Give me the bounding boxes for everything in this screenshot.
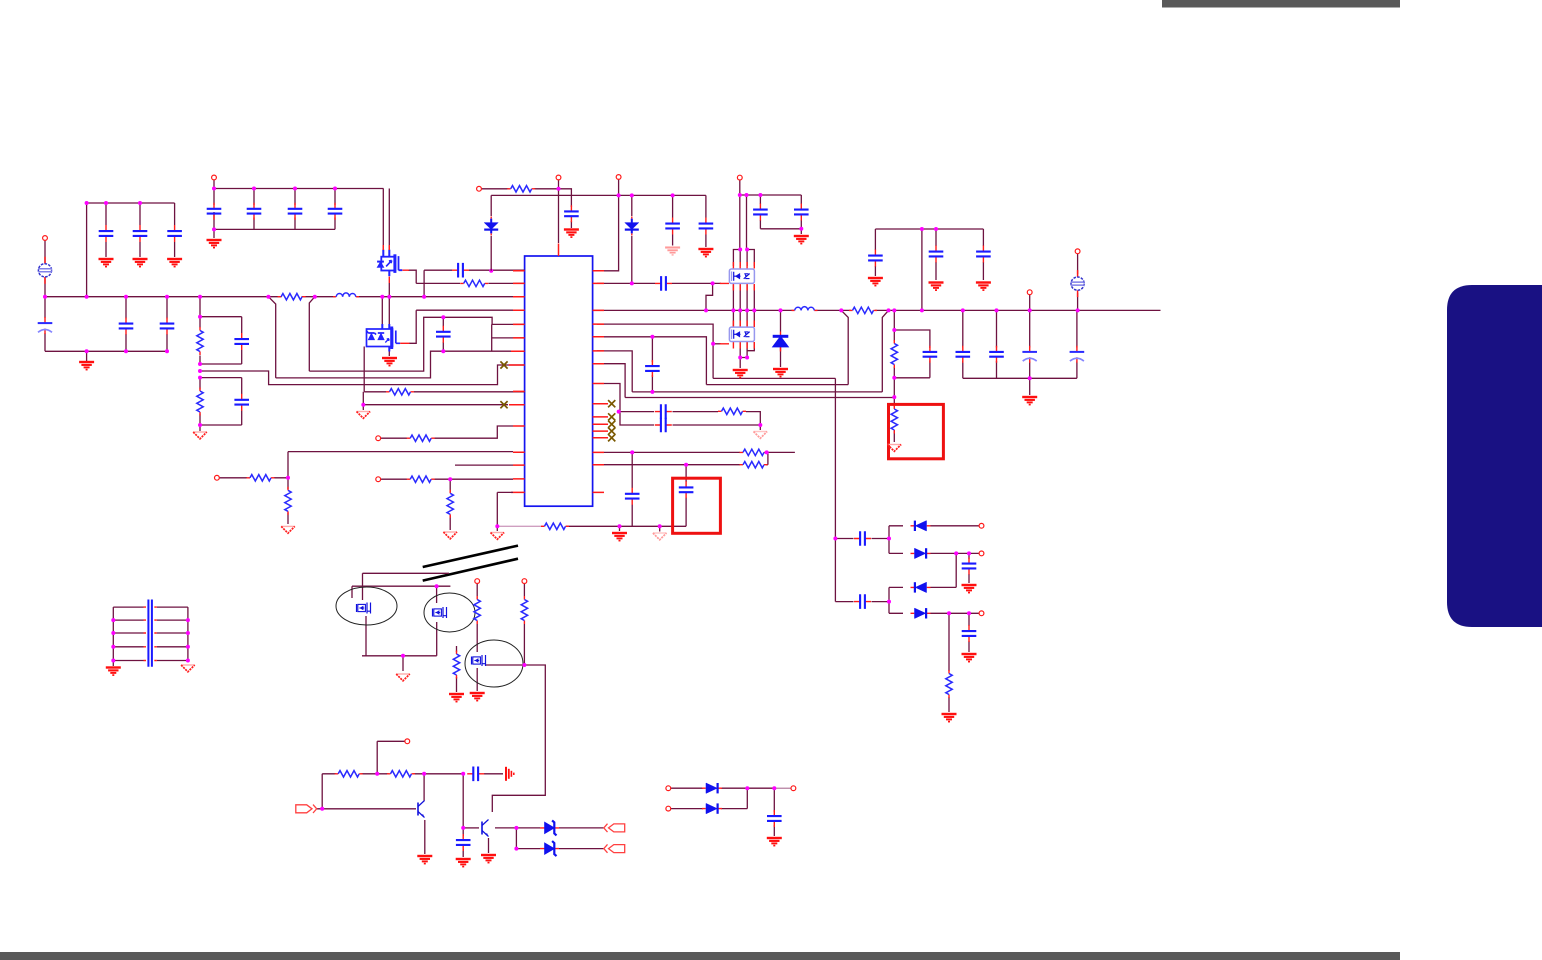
pale wire segment [774,787,791,789]
wire polarized cap C8 leads [44,297,46,352]
wire terminal P2 drop [213,180,215,205]
wire res pair tie [766,452,768,464]
ground [612,533,627,541]
wire flag to bus [44,277,46,297]
capacitor C1 [99,225,114,242]
wire line586 [352,585,450,587]
power flag PF2 [1071,270,1085,297]
wire Q10 emitter [488,838,490,853]
wire row283 resistor link [416,282,524,284]
capacitor C44 [962,558,977,575]
wire E0 drops [352,573,363,600]
polarized capacitor C27 [1070,346,1085,363]
capacitor C41 [767,810,782,827]
diode D6 [702,783,722,793]
ground [929,283,944,291]
wire box2 R2 chain [199,378,201,425]
wire terminal row478 left [219,477,288,479]
wire diode row525 [889,525,979,527]
terminal P7 [1027,290,1032,295]
resistor R22 [335,771,363,777]
terminal P16 [791,786,796,791]
ground [207,240,222,248]
capacitor C4 [207,203,222,220]
wire line to pin row351 [276,351,525,378]
wire Q4 source stub [388,351,390,356]
terminal P20 [979,611,984,616]
top header bar [1162,0,1400,8]
terminal P4 [556,175,561,180]
ground [976,283,991,291]
ground [382,358,397,366]
wire 686 into red box [685,465,687,527]
wire cap C22 chain [935,229,937,280]
wire terminal row188 [482,189,572,207]
ellipse marker E1 [424,593,475,632]
capacitor C31 [655,418,672,433]
terminal P3 [477,186,482,191]
wire R14 chain [287,478,289,524]
node junctions Q area [320,772,518,851]
diode D7 [702,803,722,813]
resistor R6 [891,340,897,368]
wire cap C18 chain [759,195,761,229]
wire Q-top gate jog [408,270,416,283]
ground [396,674,410,681]
wire base Q9 [317,774,416,809]
wire cap C16 chain [672,195,674,245]
wire cap C40 chain [462,828,464,857]
ground [470,693,485,701]
node junctions diode pair [745,786,776,790]
wire row337 left [492,337,525,339]
wire diode rail upper [888,526,890,554]
inductor L1 bus [333,293,359,297]
wire diode row587 [889,553,956,587]
ground [443,532,457,539]
wire row391 resistor link [364,391,524,393]
resistor R7 [891,406,897,434]
resistor R4 [386,389,414,395]
ground [181,665,195,672]
resistor R16 [407,435,435,441]
wire gate jog from bus [706,283,713,310]
IC U1 pin stubs right [593,271,608,493]
wire terminal drop R19 [476,584,478,596]
wire rail VIN top [214,188,384,190]
ground [417,856,432,864]
wire row773 [322,773,463,775]
wire cap C43 link [835,601,889,603]
red pin lead Q2 gate [400,342,409,344]
wire comb link [484,773,503,775]
polarized capacitor C26 [1022,346,1037,363]
ground [962,585,977,593]
wire R24 chain [948,613,950,712]
node junctions bus left [43,187,493,428]
capacitor C18 [753,204,768,221]
terminal P10 [215,475,220,480]
terminal P17 [666,806,671,811]
node junctions lower IC [495,410,768,529]
wire bus riser left [86,203,88,297]
no-connect X [500,361,507,368]
wire box2 bottom [200,424,242,426]
wire row405 [363,404,508,406]
wire cap C21 chain [874,229,876,276]
mosfet Q5 boxed lower [729,327,754,341]
wire gate tie vertical [362,392,364,405]
wire cap C5 leads [253,189,255,230]
wire Q-top gate/drain verticals [382,283,389,325]
wire diode D2 chain [631,195,633,283]
ground [888,445,902,452]
ground [698,249,713,257]
ground [868,278,883,286]
inductor L2 bus [792,307,818,311]
wire bus slant 841 [841,310,848,384]
capacitor C33 [625,488,640,505]
ground [481,855,496,863]
wire row324 continues down [712,344,714,379]
wire cap C17 chain [705,195,707,247]
wire row336 right [597,337,706,385]
node junctions rows [286,476,452,481]
capacitor C29 [923,346,938,363]
wire bank row5 [113,660,188,662]
wire row452 right [604,451,795,453]
wire cap C27 chain [1076,310,1078,378]
wire line573 [363,572,450,574]
wire cap pair loop row411 [620,412,760,425]
capacitor C30 [655,404,672,419]
transistor Q2 mosfet with zeners [367,324,401,352]
wire terminal P5 drop [739,180,741,250]
wire bank row2 [113,619,188,621]
wire cap C23 chain [982,229,984,280]
capacitor C14 row270 [452,263,469,278]
terminal P1 [43,236,48,241]
resistor R20 [521,596,527,624]
wire gnd stub [213,229,215,238]
wire line378 right [713,377,835,379]
wire terminal row270 right [597,180,619,271]
wire E2 gate resistor [456,646,458,692]
wire line397 right [625,397,894,399]
wire schottky D3 leads [780,310,782,367]
terminal P8 [1075,249,1080,254]
wire terminal drop R20 [523,584,525,596]
capacitor C19 [794,204,809,221]
capacitor C10 [160,318,175,335]
wire terminal P1 drop [44,241,46,264]
wire rail 526 [566,525,686,527]
node junctions E area [401,584,526,667]
wire cap C44 chain [968,553,970,583]
wire mos stack upper loop [733,250,754,267]
transistor Q10 npn [482,820,489,837]
ground pale [754,432,768,439]
no-connect X [608,428,615,435]
diode D2 [625,217,639,236]
wire cap-trio rail [87,202,175,204]
wire cap C4 leads [213,212,215,229]
wire E2 source gnd [476,668,478,691]
zener diode D5 [540,841,559,856]
ground [167,259,182,267]
ground [491,533,505,540]
no-connect X [608,413,615,420]
power flag PF1 [38,257,52,284]
resistor R8 [507,186,535,192]
wire 921 to bus [921,229,923,310]
wire Q9 emitter [424,820,426,854]
wire R15 chain [449,479,451,530]
no-connect X pins right [608,400,615,407]
wire E1 gate drop [436,586,438,603]
terminal P5 [737,175,742,180]
ground [357,412,371,419]
transistor Q9 npn [418,801,425,818]
capacitor C43 [854,594,871,609]
wire R6 cap loop [894,330,930,378]
ground [106,668,121,676]
ground [794,236,809,244]
ground [773,369,788,377]
schottky diode D3 [773,332,789,352]
ground [281,526,295,533]
wire cap C19 chain [800,195,802,229]
node junctions center [557,187,1080,399]
wire bank row1 [113,606,188,608]
wire gnd stub [402,656,404,671]
wire bank right rail [187,607,189,660]
wire base Q10 [463,827,479,829]
wire mos2 top leads [733,310,754,327]
capacitor C42 [854,531,871,546]
wire diode D1 chain [490,195,492,270]
wire row452 long [288,452,513,478]
wire rows324-351 tie [491,324,493,351]
wire rail2 bottom [760,229,801,234]
wire gnd stub [86,351,88,361]
wire bank row4 [113,646,188,648]
wire cap C39 link [467,773,469,775]
wire gate2 stub [713,343,721,345]
wire cap C11 leads [241,317,243,364]
capacitor C6 [288,203,303,220]
wire diode row553 [889,552,979,554]
ground [193,432,207,439]
ground [767,838,782,846]
wire cap C42 link [835,538,889,540]
wire bus slant 888 [882,310,888,392]
wire line A step [200,365,525,385]
wire terminal stub 1029 [1029,295,1031,311]
terminal P12 [475,579,480,584]
no-connect X [608,421,615,428]
capacitor C20 [645,360,660,377]
wire box1 bottom [200,363,242,365]
terminal P19 [979,551,984,556]
wire R7 gnd lead [893,431,895,442]
wire terminal row479 [381,478,513,480]
bus crossing slash 2 [423,559,518,581]
ground pale [653,533,667,540]
wire rail229 right [875,228,983,230]
wire cap C13 leads [442,317,444,351]
wire terminal row741 [377,741,405,774]
resistor R5 row283 [460,280,488,286]
resistor R23 [387,771,415,777]
wire Q9 collector [423,774,425,801]
wire cap C9 leads [125,297,127,352]
ground [564,230,579,238]
ground [133,259,148,267]
wire diode row827 [495,827,604,829]
resistor R1 [197,327,203,355]
wire bus slant right [309,297,315,371]
wire cap C41 chain [773,788,775,836]
wire Q4 gate drop [363,347,365,392]
red highlight box 2 [673,478,721,533]
wire line391 right [632,391,882,393]
wire terminal IC top [558,180,560,243]
node junctions diode net [833,537,971,616]
ellipse marker E0 [336,587,397,625]
node junctions bank [111,618,190,662]
wire vertical 746 [746,195,748,250]
resistor R15 [447,490,453,518]
capacitor C17 [699,218,714,235]
terminal P2 [212,175,217,180]
wire cap C3 leads [174,203,176,257]
terminal P9 [376,436,381,441]
wire Q-top drain verticals [383,189,389,251]
wire gnd stubs rail526 [497,526,659,531]
wire rail2 195 [740,194,802,196]
bus crossing slash 1 [423,546,518,567]
wire into red box R7 [893,397,895,406]
wire bus right of IC [593,309,1161,311]
wire row464 right [604,464,740,466]
chassis ground comb [506,767,514,781]
diode D1 [484,217,498,236]
red pin leads mos stack [383,245,754,349]
wire diode row848 [516,828,603,849]
wire terminal flag drop [1077,254,1079,274]
wire row465 left stub [455,464,513,466]
IC U1 body [525,256,593,506]
mosfet Q7 in ellipse [433,607,447,618]
mosfet Q3 boxed upper [729,269,754,283]
wire row310 to Q2 gate [409,310,513,343]
wire bottom rail left [45,350,167,352]
bottom footer bar [0,952,1400,960]
wire cap C12 leads [241,378,243,425]
wire rail378 right [963,377,1077,379]
wire cap C25 chain [996,310,998,378]
wire row383 right [604,384,620,412]
wire E1 source [436,622,438,656]
wire row492 left [497,492,513,526]
capacitor C23 [976,246,991,263]
wire bus slant left [268,297,275,378]
capacitor C13 [436,326,451,343]
capacitor bank rails [113,607,188,666]
transistor Q1 top mosfet [377,250,402,277]
wire E2 drain out [486,665,545,812]
ground [79,362,94,370]
capacitor C9 [119,318,134,335]
wire diode row613 [889,612,979,614]
terminal P15 [666,786,671,791]
wire cap C20 chain [651,337,653,392]
mosfet Q6 in ellipse [357,603,371,614]
terminal P11 [376,477,381,482]
wire gnd stub [759,425,761,430]
wire row283 right gate net [597,282,721,284]
wire node463 drop [462,774,464,828]
wire diode rail lower [888,587,890,613]
wire terminal row788 [671,787,791,789]
wire cap net to bus [424,270,452,297]
resistor R13 rail526 [541,523,569,529]
ellipse marker E2 [465,640,523,687]
wire row363 right [597,364,625,398]
capacitor C40 [456,834,471,851]
wire rect 655 [362,655,437,657]
wire rail 195 [491,194,706,196]
connector CN3 [604,844,625,852]
terminal P14 [405,739,410,744]
capacitor C7 [328,203,343,220]
ground [942,714,957,722]
wire R19 to E2 [476,624,478,652]
capacitor C11 [234,333,249,350]
diode D8 [911,521,931,531]
wire main bus [45,296,525,298]
capacitor C32 in box [679,481,694,498]
red highlight box 1 [889,404,944,458]
wire cap C26 chain [1029,310,1031,378]
wire cap C15 gnd lead [570,221,572,228]
wire terminal row808 [671,788,748,808]
wire E0 source [365,616,367,656]
wire cap C6 leads [294,189,296,230]
wire gnd stub [362,405,364,410]
wire R6 net vertical [893,310,895,397]
ground pale [665,248,680,255]
diode D10 [911,582,931,592]
capacitor C3 [167,225,182,242]
terminal P13 [522,579,527,584]
capacitor C24 [956,346,971,363]
capacitor C39 [467,767,484,782]
ground [449,694,464,702]
resistor R11 row452 [740,449,768,455]
resistor R10 row411 [718,408,746,414]
ground [456,859,471,867]
resistor R19 [474,596,480,624]
capacitor C21 [868,250,883,267]
wire cap C45 chain [968,613,970,652]
wire row324 right [597,324,713,344]
connector CN2 [604,824,625,832]
wire box1 top [200,316,242,318]
capacitor C5 [247,203,262,220]
wire cap C7 leads [334,189,336,230]
